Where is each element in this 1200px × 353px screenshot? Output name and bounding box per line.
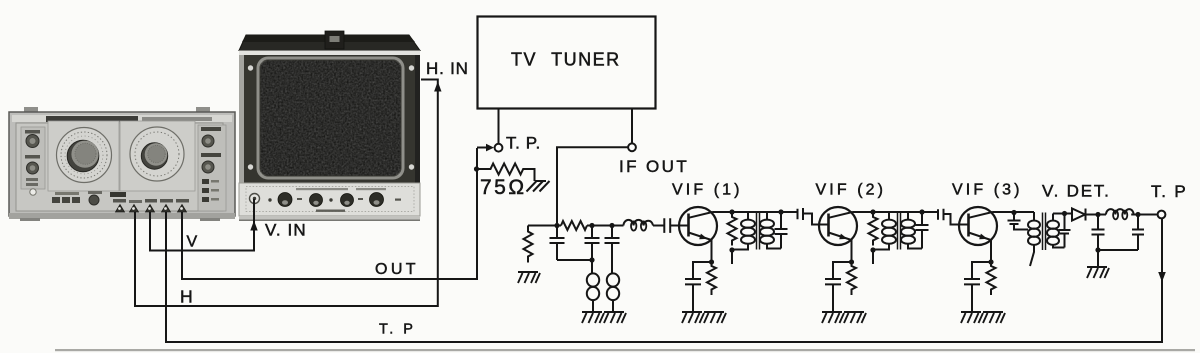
inductor filter xyxy=(1106,209,1134,214)
capacitor series 2-3 xyxy=(938,209,944,221)
node filter 1 xyxy=(1095,212,1100,217)
node filter gnd xyxy=(1095,247,1100,252)
wire OUT xyxy=(182,148,477,279)
svg-text:V. DET.: V. DET. xyxy=(1042,182,1111,201)
transformer T2 xyxy=(873,212,922,250)
capacitor emitter 3 xyxy=(964,262,991,311)
svg-text:H: H xyxy=(180,287,193,307)
collector rail 1 xyxy=(713,211,797,213)
capacitor shunt 1 xyxy=(550,226,565,261)
capacitor shunt 3 xyxy=(605,226,620,274)
capacitor series 1-2 xyxy=(798,208,804,220)
wire H xyxy=(135,80,438,307)
wire into VIF3 base xyxy=(944,214,969,225)
secondary top wire xyxy=(1053,213,1072,215)
arrow H.IN xyxy=(434,82,441,92)
wire diode to filter xyxy=(1086,214,1107,216)
node resistor bottom 2 xyxy=(870,247,875,252)
wire to T.P xyxy=(1131,214,1157,216)
node T3 secondary xyxy=(1062,211,1067,216)
tuner lead IF OUT xyxy=(631,109,633,143)
main input line xyxy=(528,225,689,227)
transistor VIF1 xyxy=(679,207,717,262)
TV tuner box xyxy=(478,17,656,109)
svg-text:OUT: OUT xyxy=(375,261,419,278)
svg-text:T. P.: T. P. xyxy=(506,134,541,153)
ground emitter res 3 xyxy=(983,312,1005,323)
capacitor T1 xyxy=(775,212,788,249)
node rail T3 xyxy=(1011,210,1016,215)
wire T.P bottom xyxy=(166,212,1162,342)
wire OUT arrow lead xyxy=(477,147,486,149)
inductor shunt 2 xyxy=(607,273,619,311)
svg-text:T. P: T. P xyxy=(379,322,416,338)
capacitor T3 primary xyxy=(1008,213,1029,230)
capacitor emitter 2 xyxy=(825,262,852,311)
right dial xyxy=(120,121,195,191)
ground emitter res 2 xyxy=(844,312,866,323)
resistor series input xyxy=(561,221,587,230)
inductor shunt 1 xyxy=(587,273,599,311)
svg-text:H. IN: H. IN xyxy=(426,59,469,78)
svg-text:VIF (1): VIF (1) xyxy=(672,182,743,199)
arrow T.P down xyxy=(1158,272,1166,282)
ground coil 2 xyxy=(604,312,626,323)
capacitor shunt 2 xyxy=(585,226,600,274)
node filter 2 xyxy=(1135,212,1140,217)
node C xyxy=(589,257,594,262)
bottom controls xyxy=(52,197,60,203)
node input junction xyxy=(554,223,559,228)
node 75ohm tap xyxy=(474,166,479,171)
ground filter xyxy=(1087,267,1109,278)
wire V xyxy=(150,199,254,251)
capacitor filter 2 xyxy=(1132,215,1144,251)
svg-text:T. P: T. P xyxy=(1151,182,1188,201)
terminal labels xyxy=(113,199,126,203)
arrow into T.P. terminal xyxy=(486,144,494,152)
node rail R2 xyxy=(870,209,875,214)
node emitter 3 xyxy=(988,259,993,264)
node rail R1 xyxy=(729,209,734,214)
resistor emitter 3 xyxy=(987,262,996,295)
resistor collector 2 xyxy=(869,212,878,246)
transistor VIF2 xyxy=(819,207,857,262)
wire filter bottom xyxy=(1098,250,1138,266)
terminals xyxy=(116,205,187,213)
ground coil 1 xyxy=(582,312,604,323)
stub AGC 1 xyxy=(731,250,733,264)
inductor series input xyxy=(624,220,654,226)
resistor emitter 2 xyxy=(847,262,856,295)
wire cap1 to node C xyxy=(557,259,592,261)
terminal T.P right xyxy=(1158,211,1166,219)
node rail T1 cap xyxy=(778,209,783,214)
scan artifact bottom xyxy=(55,349,1195,351)
wire into VIF2 base xyxy=(803,214,829,225)
diode V.DET xyxy=(1072,209,1085,221)
node rail T2 cap xyxy=(919,209,924,214)
svg-text:VIF (3): VIF (3) xyxy=(952,182,1023,199)
ground emitter cap 2 xyxy=(822,312,844,323)
node resistor bottom 1 xyxy=(729,247,734,252)
node emitter 1 xyxy=(709,259,714,264)
ground emitter cap 3 xyxy=(961,312,983,323)
node A xyxy=(589,223,594,228)
collector rail 3 xyxy=(993,211,1034,213)
capacitor filter 1 xyxy=(1092,215,1105,251)
resistor 75ohm xyxy=(477,164,535,182)
svg-text:VIF (2): VIF (2) xyxy=(816,182,887,199)
terminal T.P. xyxy=(495,144,503,152)
transformer T1 xyxy=(732,212,781,250)
resistor collector 1 xyxy=(728,212,737,246)
left subpanel xyxy=(21,127,45,189)
right subpanel xyxy=(198,125,226,211)
ground emitter res 1 xyxy=(704,312,726,323)
resistor emitter 1 xyxy=(707,262,716,295)
svg-text:IF OUT: IF OUT xyxy=(619,157,689,176)
tuner lead T.P. xyxy=(498,109,500,144)
svg-text:V: V xyxy=(187,234,198,251)
stub AGC 2 xyxy=(872,250,874,264)
svg-text:75Ω: 75Ω xyxy=(480,176,527,199)
svg-text:TV TUNER: TV TUNER xyxy=(511,50,621,70)
svg-text:V. IN: V. IN xyxy=(265,221,307,240)
terminal IF OUT xyxy=(628,143,636,151)
arrow V.IN xyxy=(250,221,257,231)
capacitor series input xyxy=(664,218,670,233)
ground 75ohm xyxy=(527,181,550,192)
ground emitter cap 1 xyxy=(682,312,704,323)
transformer T3 xyxy=(1028,212,1065,266)
left dial xyxy=(48,121,119,191)
collector rail 2 xyxy=(853,211,938,213)
capacitor emitter 1 xyxy=(685,262,712,311)
node B xyxy=(609,223,614,228)
wire IF OUT to main line xyxy=(557,147,628,223)
capacitor T3 secondary xyxy=(1059,214,1071,248)
ground input shunt xyxy=(518,272,540,283)
resistor input shunt xyxy=(524,226,533,263)
node emitter 2 xyxy=(849,259,854,264)
capacitor T2 xyxy=(916,212,929,249)
transistor VIF3 xyxy=(959,207,997,262)
